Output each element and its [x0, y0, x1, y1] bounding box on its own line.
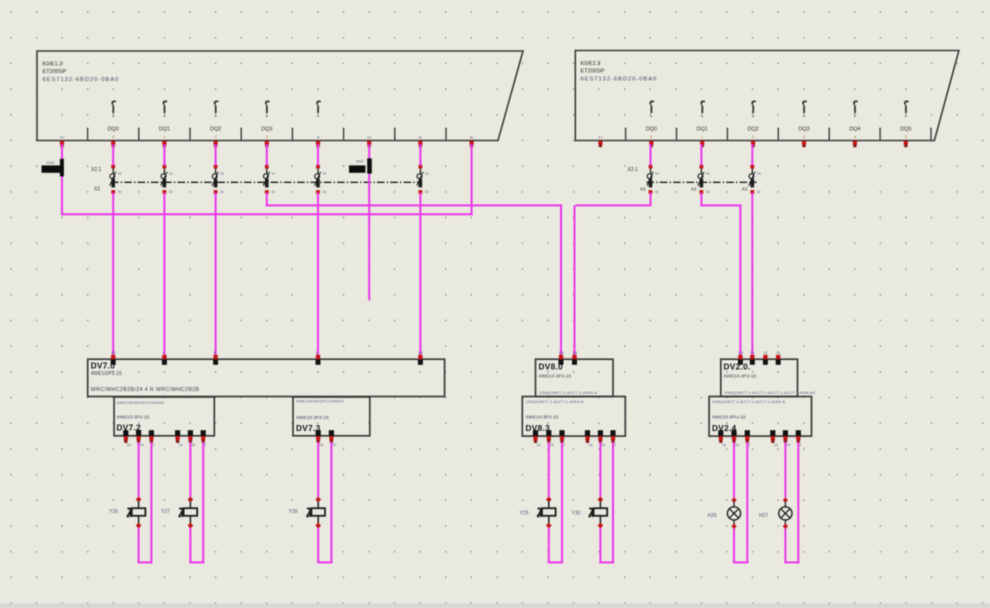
wire loop Y30 [599, 442, 614, 564]
svg-text:X2.1: X2.1 [91, 167, 102, 173]
wire x=420 terminal to DV7.0 [419, 193, 421, 357]
label Y27 [161, 509, 170, 515]
svg-text:1a: 1a [220, 171, 224, 175]
svg-text:Y27: Y27 [161, 509, 170, 515]
module A2 channel dividers [626, 128, 931, 140]
DV8.3 bottom pin 1b [546, 430, 554, 447]
svg-text:W31: W31 [356, 160, 364, 164]
svg-text:D8: D8 [559, 351, 564, 355]
svg-text:1b: 1b [757, 190, 761, 194]
svg-text:1b: 1b [332, 443, 336, 447]
svg-text:6ES7132-6BD20-0BA0: 6ES7132-6BD20-0BA0 [43, 77, 120, 83]
svg-text:1a: 1a [655, 171, 659, 175]
svg-text:0: 0 [650, 135, 652, 139]
DV8.3 bottom pin 2 [559, 430, 565, 447]
terminal X2.1:3 [212, 165, 224, 195]
svg-text:0: 0 [112, 135, 114, 139]
module A1 pins [60, 141, 474, 147]
DV7.0 top pin A9 [418, 351, 423, 365]
cable plug X31 on channel 7 [349, 158, 372, 173]
DV8.0 top pin D8 [572, 351, 577, 365]
module A1 pin number labels [60, 135, 474, 140]
DV7.0 top pin E [316, 351, 321, 365]
DV7.2 bottom pin 2 [149, 430, 155, 447]
svg-text:Y30: Y30 [572, 511, 581, 517]
svg-text:A9: A9 [418, 351, 422, 355]
terminal X2.1:1 [110, 165, 122, 195]
svg-text:W30: W30 [47, 161, 55, 165]
svg-text:4WE10-3P2-15: 4WE10-3P2-15 [724, 373, 757, 379]
valve block DV7.2 box [114, 397, 214, 436]
DV7.2 bottom pin 1a [175, 430, 183, 447]
wire loop Y29 [548, 442, 563, 564]
svg-text:DQ1: DQ1 [159, 126, 170, 132]
label H27 [759, 513, 768, 519]
svg-text:3L: 3L [469, 136, 473, 140]
svg-text:1a: 1a [271, 171, 275, 175]
wire down to DV8.0 pin2 [574, 205, 576, 356]
svg-text:1b: 1b [220, 190, 224, 194]
label Y28 [289, 509, 298, 515]
wire down to DV8.0 pin1 [560, 205, 562, 356]
svg-text:1a: 1a [774, 443, 778, 447]
DV2.4 bottom pin 1b [731, 430, 739, 447]
svg-text:1b: 1b [425, 190, 429, 194]
svg-text:2: 2 [215, 135, 217, 139]
svg-text:1a: 1a [425, 171, 429, 175]
svg-text:X2: X2 [94, 187, 100, 193]
DV7.2 bottom pin 1a [123, 430, 131, 447]
valve manifold DV8.0 box [536, 359, 614, 396]
DV7.2 text labels [117, 400, 165, 433]
wire rch2 terminal down [650, 193, 652, 207]
svg-text:1b: 1b [601, 443, 605, 447]
svg-text:1a: 1a [537, 443, 541, 447]
module A1 channel dividers [88, 128, 446, 140]
svg-text:4WE10D34/OFC24N9Z4: 4WE10D34/OFC24N9Z4 [296, 399, 344, 404]
svg-text:15: 15 [763, 351, 767, 355]
svg-text:4: 4 [854, 135, 856, 139]
DV7.2 bottom pin 1b [188, 430, 196, 447]
svg-text:X2.1: X2.1 [628, 167, 639, 173]
svg-text:DQ0: DQ0 [108, 126, 119, 132]
DV2.0 top pin 15 [763, 351, 768, 365]
valve coil Y29 [537, 497, 556, 529]
svg-text:A9: A9 [111, 351, 115, 355]
svg-text:6ES7132-6BD20-0BA0: 6ES7132-6BD20-0BA0 [581, 76, 658, 82]
svg-text:1a: 1a [757, 171, 761, 175]
svg-text:H27: H27 [759, 513, 768, 519]
terminal X2.1:2 [161, 165, 173, 195]
lamp block DV2.4 box [709, 397, 811, 437]
svg-text:1b: 1b [322, 190, 326, 194]
terminal X2.1:5 [315, 165, 327, 195]
PLC output module A1 (left) [37, 51, 523, 141]
wire x=650 module to terminal (right) [650, 144, 652, 166]
svg-text:X2: X2 [742, 187, 748, 192]
wire x=164 module to terminal [163, 144, 165, 166]
DV2.4 text labels [712, 399, 785, 433]
valve manifold DV7.0 box [88, 359, 445, 396]
wire rch3 terminal down [700, 193, 702, 207]
cable plug X30 on channel 1 [42, 159, 64, 177]
svg-text:2: 2 [748, 443, 750, 447]
svg-text:4WE10-3P2-15: 4WE10-3P2-15 [296, 415, 329, 421]
lamp module DV2.0 box [721, 359, 798, 396]
label H26 [708, 513, 717, 519]
svg-text:4WE10-3P2-15: 4WE10-3P2-15 [526, 415, 559, 421]
label Y29 [520, 511, 529, 517]
svg-text:4WE10/P2-15: 4WE10/P2-15 [91, 371, 122, 377]
svg-text:DV2.0.: DV2.0. [724, 363, 751, 372]
svg-text:1: 1 [163, 135, 165, 139]
svg-text:DQ2: DQ2 [748, 126, 759, 132]
wire bus L+ horizontal [61, 213, 473, 215]
terminal strip X2.1 designation (left) [91, 167, 102, 193]
DV8.0 top pin D8 [559, 351, 564, 365]
DV2.0 top pin 16 [776, 351, 781, 365]
indicator lamp H27 [779, 497, 792, 528]
svg-text:1a: 1a [319, 443, 323, 447]
terminal strip X2.1 rail (right) [647, 181, 757, 183]
DV8.3 bottom pin 1b [598, 430, 606, 447]
DV8.3 text labels [526, 399, 584, 433]
DV7.3 text labels [296, 399, 344, 433]
valve block DV7.3 box [293, 397, 370, 436]
DV8.3 bottom pin 1a [585, 430, 593, 447]
svg-text:1a: 1a [118, 171, 122, 175]
wire x=216 module to terminal [215, 144, 217, 166]
terminal X2:2 (right) [691, 165, 710, 195]
DV2.0 top pin D1 [750, 351, 755, 365]
svg-text:1/5A(2)4677.1-A/177.1-A/177.1-: 1/5A(2)4677.1-A/177.1-A/177.1-A/5A-A [712, 399, 785, 404]
wire x=113 terminal to DV7.0 [112, 193, 114, 357]
DV7.0 text labels [91, 361, 200, 393]
svg-text:1a: 1a [589, 443, 593, 447]
label Y26 [109, 509, 118, 515]
DV7.0 top pin B [213, 351, 218, 365]
wire x=318 terminal to DV7.0 [317, 193, 319, 357]
wire rch3 horizontal [700, 204, 741, 206]
DV2.0 top pin D3 [738, 351, 743, 365]
svg-text:DQ1: DQ1 [697, 126, 708, 132]
DV7.2 bottom pin 1b [136, 430, 144, 447]
terminal X2:1 (right) [640, 165, 659, 195]
wire rch4 to DV2.0 pin2 [751, 193, 753, 357]
wire x=113 module to terminal [112, 144, 114, 166]
DV8.3 bottom pin 2 [610, 430, 616, 447]
DV7.3 bottom pin 1b [329, 430, 337, 447]
svg-text:ET200SP: ET200SP [43, 69, 67, 75]
DV2.4 bottom pin 2 [796, 430, 802, 447]
wire loop H27 [784, 442, 799, 564]
svg-text:3: 3 [803, 135, 805, 139]
svg-text:X2: X2 [640, 187, 646, 192]
svg-text:4WE10-3P2-15: 4WE10-3P2-15 [117, 414, 150, 420]
svg-text:DQ0: DQ0 [646, 126, 657, 132]
svg-text:8: 8 [317, 136, 319, 140]
svg-text:1a: 1a [722, 443, 726, 447]
svg-text:D3: D3 [738, 351, 743, 355]
svg-text:1a: 1a [322, 171, 326, 175]
module A2 pin 1+ label [598, 135, 603, 140]
svg-text:1b: 1b [140, 443, 144, 447]
svg-text:D1: D1 [750, 351, 755, 355]
svg-text:DQ4: DQ4 [849, 126, 860, 132]
module A2 DQ channel labels [646, 126, 912, 139]
svg-text:ET200SP: ET200SP [581, 69, 605, 75]
DV8.3 bottom pin 1a [533, 430, 541, 447]
svg-text:X2: X2 [691, 187, 697, 192]
svg-text:K0/E1.2: K0/E1.2 [43, 62, 63, 68]
svg-text:1a: 1a [706, 171, 710, 175]
DV2.4 bottom pin 1a [718, 430, 726, 447]
svg-text:4WE10D34/OFC24N9Z4: 4WE10D34/OFC24N9Z4 [117, 400, 165, 405]
svg-text:2: 2 [614, 443, 616, 447]
svg-text:4WE10-3P2-15: 4WE10-3P2-15 [539, 373, 572, 379]
valve coil Y30 [589, 497, 608, 529]
module A2 text labels [581, 61, 658, 82]
valve coil Y26 [127, 497, 146, 529]
wire loop H26 [733, 442, 749, 564]
svg-text:5: 5 [905, 135, 907, 139]
wire x=752 module to terminal (right) [751, 144, 753, 166]
wire ch5 terminal down [266, 193, 268, 207]
svg-text:1b: 1b [271, 190, 275, 194]
wire x=267 module to terminal [266, 144, 268, 166]
indicator lamp H26 [727, 497, 740, 528]
svg-text:16: 16 [776, 351, 780, 355]
svg-text:DQ3: DQ3 [798, 126, 809, 132]
DV7.3 bottom pin 1a [316, 430, 324, 447]
module A2 pins [598, 141, 908, 147]
svg-text:DQ3: DQ3 [261, 126, 272, 132]
svg-text:1b: 1b [655, 190, 659, 194]
svg-text:2: 2 [563, 443, 565, 447]
wire x=420 module to terminal [419, 144, 421, 166]
DV7.0 top pin C [162, 351, 167, 365]
svg-text:1a: 1a [169, 171, 173, 175]
svg-text:Y29: Y29 [520, 511, 529, 517]
wire x=164 terminal to DV7.0 [163, 193, 165, 357]
DV2.4 bottom pin 2 [745, 430, 751, 447]
label Y30 [572, 511, 581, 517]
terminal X2:3 (right) [742, 165, 761, 195]
wire rch2 horizontal [576, 204, 650, 206]
svg-text:1: 1 [701, 135, 703, 139]
wire loop Y26 [138, 442, 153, 564]
DV2.0 text labels [724, 363, 817, 396]
svg-text:DQ5: DQ5 [900, 126, 911, 132]
svg-text:1a: 1a [127, 443, 131, 447]
svg-text:WRC/WHC2B2B/24 4 R WRC/WHC2B2: WRC/WHC2B2B/24 4 R WRC/WHC2B2B [91, 387, 200, 393]
svg-text:1/5A(2)4677.1-A/177.1-A/5/4-A: 1/5A(2)4677.1-A/177.1-A/5/4-A [539, 390, 597, 395]
svg-text:1b: 1b [118, 190, 122, 194]
svg-text:1b: 1b [786, 443, 790, 447]
terminal X2.1:4 [263, 165, 275, 195]
wire x=701 module to terminal (right) [700, 144, 702, 166]
wire ch9 down [471, 144, 473, 215]
svg-text:12: 12 [367, 136, 371, 140]
terminal X2.1:6 [417, 165, 429, 195]
svg-text:1b: 1b [550, 443, 554, 447]
svg-text:Y28: Y28 [289, 509, 298, 515]
wire ch7 stub [368, 144, 370, 300]
svg-text:2L: 2L [418, 136, 422, 140]
svg-text:1b: 1b [169, 190, 173, 194]
terminal strip X2.1 rail (left) [111, 181, 422, 183]
svg-text:2: 2 [204, 443, 206, 447]
svg-text:1b: 1b [191, 443, 195, 447]
module A1 text labels [43, 62, 120, 83]
svg-text:1b: 1b [706, 190, 710, 194]
svg-text:3: 3 [266, 135, 268, 139]
svg-text:1+: 1+ [60, 135, 65, 140]
svg-text:4WE10-3PU-15: 4WE10-3PU-15 [712, 415, 746, 421]
DV7.0 top pin A9 [111, 351, 116, 365]
wire x=216 terminal to DV7.0 [215, 193, 217, 357]
DV2.4 bottom pin 1a [770, 430, 778, 447]
module A2 output switch symbols [650, 101, 908, 117]
svg-text:1+: 1+ [598, 135, 603, 140]
svg-text:D8: D8 [573, 351, 578, 355]
module A1 output switch symbols [112, 101, 321, 117]
wire loop Y27 [189, 442, 204, 564]
wire down to DV2.0 pin1 [739, 205, 741, 356]
valve coil Y27 [179, 497, 198, 529]
svg-text:H26: H26 [708, 513, 717, 519]
DV7.2 bottom pin 2 [201, 430, 207, 447]
svg-text:2: 2 [799, 443, 801, 447]
valve coil Y28 [306, 497, 325, 529]
wire loop Y28 [317, 442, 332, 564]
wire ch5 horizontal to DV8.0 [266, 204, 562, 206]
svg-text:DQ2: DQ2 [210, 126, 221, 132]
svg-text:Y26: Y26 [109, 509, 118, 515]
svg-text:1/5A(2)4677.1-A/177.1-A/5/4-A: 1/5A(2)4677.1-A/177.1-A/5/4-A [526, 399, 584, 404]
svg-text:C: C [162, 351, 165, 355]
valve block DV8.3 box [522, 397, 625, 437]
svg-text:K0/E2.3: K0/E2.3 [581, 61, 601, 67]
svg-text:2: 2 [752, 135, 754, 139]
svg-text:1b: 1b [735, 443, 739, 447]
wire x=318 module to terminal [317, 144, 319, 166]
terminal strip X2.1 designation (right) [628, 167, 639, 173]
DV2.4 bottom pin 1b [783, 430, 791, 447]
module A1 DQ channel labels [108, 126, 273, 139]
svg-text:1a: 1a [179, 443, 183, 447]
DV8.0 text labels [539, 363, 598, 396]
wire ch1 down [61, 144, 63, 215]
svg-text:2: 2 [152, 443, 154, 447]
PLC output module A2 (right) [575, 51, 959, 141]
svg-text:1/5A(2)4677.1-A/177.1-A/177.1-: 1/5A(2)4677.1-A/177.1-A/177.1-A/177.1-A/… [724, 390, 816, 395]
